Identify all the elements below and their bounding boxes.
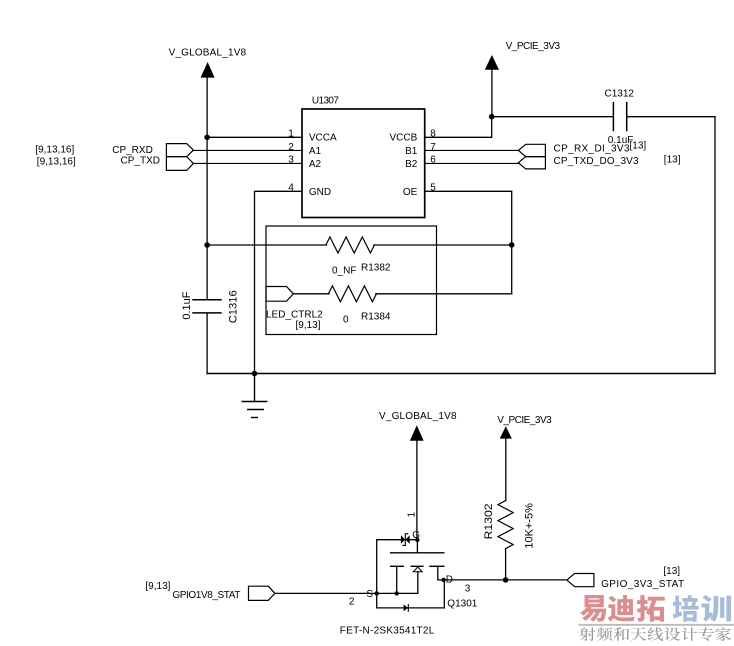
svg-text:6: 6 <box>430 155 436 166</box>
svg-text:[9,13,16]: [9,13,16] <box>37 156 76 167</box>
node junction dot G <box>415 538 419 542</box>
wire gate stem <box>416 440 418 539</box>
capacitor C1312 <box>605 89 647 152</box>
resistor R1302 <box>498 501 513 549</box>
svg-text:3: 3 <box>465 584 471 595</box>
wire pin 5 OE <box>425 191 512 293</box>
wire R1384 leads <box>293 293 511 295</box>
resistor R1382 <box>326 237 375 253</box>
connector CP_RX_DI_3V3 <box>518 144 630 157</box>
svg-text:8: 8 <box>430 129 436 140</box>
node junction dot (V_PCIE/C1312 rail) <box>489 114 495 120</box>
svg-text:A2: A2 <box>309 159 322 170</box>
svg-text:R1382: R1382 <box>361 263 391 274</box>
svg-text:V_PCIE_3V3: V_PCIE_3V3 <box>506 41 561 52</box>
wire R1302 bottom lead <box>505 549 507 580</box>
connector CP_TXD <box>37 156 194 171</box>
svg-text:R1302: R1302 <box>483 503 495 539</box>
connector CP_RXD <box>35 144 193 157</box>
svg-text:C1316: C1316 <box>228 290 240 323</box>
transistor Q1301 FET <box>275 530 478 611</box>
svg-text:1: 1 <box>288 129 294 140</box>
channel segment (body) <box>411 565 423 567</box>
wire R1382 rail <box>207 244 512 246</box>
svg-text:[9,13]: [9,13] <box>296 320 321 331</box>
channel segment (drain) <box>430 565 444 567</box>
svg-text:VCCA: VCCA <box>309 133 337 144</box>
watermark text 易迪拓培训 <box>580 595 731 622</box>
gate zener symbol <box>401 534 410 546</box>
wire gate horizontal <box>377 539 418 541</box>
svg-text:0_NF: 0_NF <box>332 265 356 276</box>
node junction dot D <box>441 578 445 582</box>
power flag V_GLOBAL_1V8 (top) <box>169 48 247 78</box>
connector GPIO_3V3_STAT <box>567 566 684 590</box>
svg-text:1: 1 <box>407 512 418 518</box>
source contact <box>396 566 398 593</box>
wire C1312 rail left <box>492 116 613 118</box>
svg-text:V_PCIE_3V3: V_PCIE_3V3 <box>497 415 552 426</box>
svg-text:5: 5 <box>430 183 436 194</box>
svg-text:[13]: [13] <box>663 566 680 577</box>
wire right loop vertical <box>443 580 445 608</box>
svg-text:OE: OE <box>403 187 418 198</box>
channel segment (source) <box>391 565 404 567</box>
svg-text:GPIO1V8_STAT: GPIO1V8_STAT <box>172 590 240 601</box>
svg-text:GND: GND <box>309 187 331 198</box>
wire bottom loop <box>377 607 445 609</box>
power flag V_PCIE_3V3 (lower) <box>497 415 552 439</box>
wire left loop vertical <box>376 540 378 608</box>
wire gate to plate <box>416 540 418 553</box>
svg-text:2: 2 <box>288 142 294 153</box>
svg-text:FET-N-2SK3541T2L: FET-N-2SK3541T2L <box>340 626 435 637</box>
power flag V_PCIE_3V3 (top) <box>485 41 561 70</box>
wire V_GLOBAL_1V8 rail vertical <box>206 77 208 374</box>
svg-text:S: S <box>366 589 373 600</box>
wire pin 7 B1 <box>425 149 519 151</box>
wire drain rail to connector <box>444 579 567 581</box>
source-drain diode <box>404 605 409 612</box>
svg-text:0.1uF: 0.1uF <box>181 291 193 319</box>
svg-text:[13]: [13] <box>664 155 681 166</box>
svg-text:Q1301: Q1301 <box>447 599 477 610</box>
gate plate <box>391 552 444 554</box>
connector CP_TXD_DO_3V3 <box>518 155 680 169</box>
IC U1307 body <box>302 109 425 218</box>
wire C1312 rail right <box>627 116 715 118</box>
svg-text:4: 4 <box>288 183 294 194</box>
wire ground rail (bottom of upper section) <box>207 373 715 375</box>
ground symbol <box>242 374 266 418</box>
svg-text:U1307: U1307 <box>312 95 339 106</box>
drain contact <box>438 566 444 580</box>
node junction dot (rail/R1382) <box>204 242 210 248</box>
node junction dot S2 <box>395 591 399 595</box>
svg-text:R1384: R1384 <box>361 312 391 323</box>
wire pin 6 B2 <box>425 162 519 164</box>
svg-text:B1: B1 <box>405 146 418 157</box>
wire pin 1 VCCA <box>207 136 302 138</box>
wire pin 2 A1 <box>193 149 302 151</box>
node junction dot (OE vert / R1382 rail) <box>509 242 515 248</box>
wire R1302 top lead <box>505 438 507 500</box>
node junction dot (ground tap) <box>252 371 258 377</box>
svg-text:CP_TXD_DO_3V3: CP_TXD_DO_3V3 <box>554 156 639 167</box>
svg-text:2: 2 <box>349 596 355 607</box>
svg-text:VCCB: VCCB <box>390 133 418 144</box>
node junction dot (R1302/D rail) <box>503 577 509 583</box>
svg-text:B2: B2 <box>405 159 418 170</box>
svg-text:CP_RX_DI_3V3: CP_RX_DI_3V3 <box>554 144 630 155</box>
svg-text:7: 7 <box>430 142 436 153</box>
wire pin 4 GND to ground rail <box>255 191 303 373</box>
wire pin 3 A2 <box>193 162 302 164</box>
svg-text:CP_RXD: CP_RXD <box>112 145 153 156</box>
wire source rail <box>275 592 418 594</box>
watermark text 射频和天线设计专家 <box>580 627 731 641</box>
svg-text:[13]: [13] <box>630 140 647 151</box>
svg-text:V_GLOBAL_1V8: V_GLOBAL_1V8 <box>169 48 247 59</box>
wire right branch vertical <box>714 117 716 374</box>
svg-text:10K+-5%: 10K+-5% <box>524 503 536 549</box>
node junction dot S1 <box>375 591 379 595</box>
svg-text:[9,13,16]: [9,13,16] <box>35 144 74 155</box>
wire pin 8 VCCB <box>425 117 492 138</box>
resistor network box <box>266 226 437 335</box>
node junction dot (rail/pin1) <box>204 135 210 141</box>
svg-text:LED_CTRL2: LED_CTRL2 <box>266 309 323 320</box>
wire V_PCIE_3V3 stem <box>491 70 493 117</box>
resistor R1384 <box>328 286 376 302</box>
connector GPIO1V8_STAT <box>145 581 275 601</box>
connector LED_CTRL2 <box>266 287 323 332</box>
svg-text:V_GLOBAL_1V8: V_GLOBAL_1V8 <box>379 411 457 422</box>
capacitor C1316 <box>181 290 240 323</box>
svg-text:3: 3 <box>288 155 294 166</box>
watermark underline <box>579 624 734 626</box>
svg-text:A1: A1 <box>309 146 322 157</box>
svg-text:G: G <box>412 530 420 541</box>
body diode <box>413 567 422 593</box>
svg-text:[9,13]: [9,13] <box>145 581 170 592</box>
svg-text:0: 0 <box>343 314 349 325</box>
svg-text:GPIO_3V3_STAT: GPIO_3V3_STAT <box>601 579 684 590</box>
power flag V_GLOBAL_1V8 (lower) <box>379 411 457 441</box>
svg-text:CP_TXD: CP_TXD <box>121 156 160 167</box>
svg-text:C1312: C1312 <box>605 89 635 100</box>
